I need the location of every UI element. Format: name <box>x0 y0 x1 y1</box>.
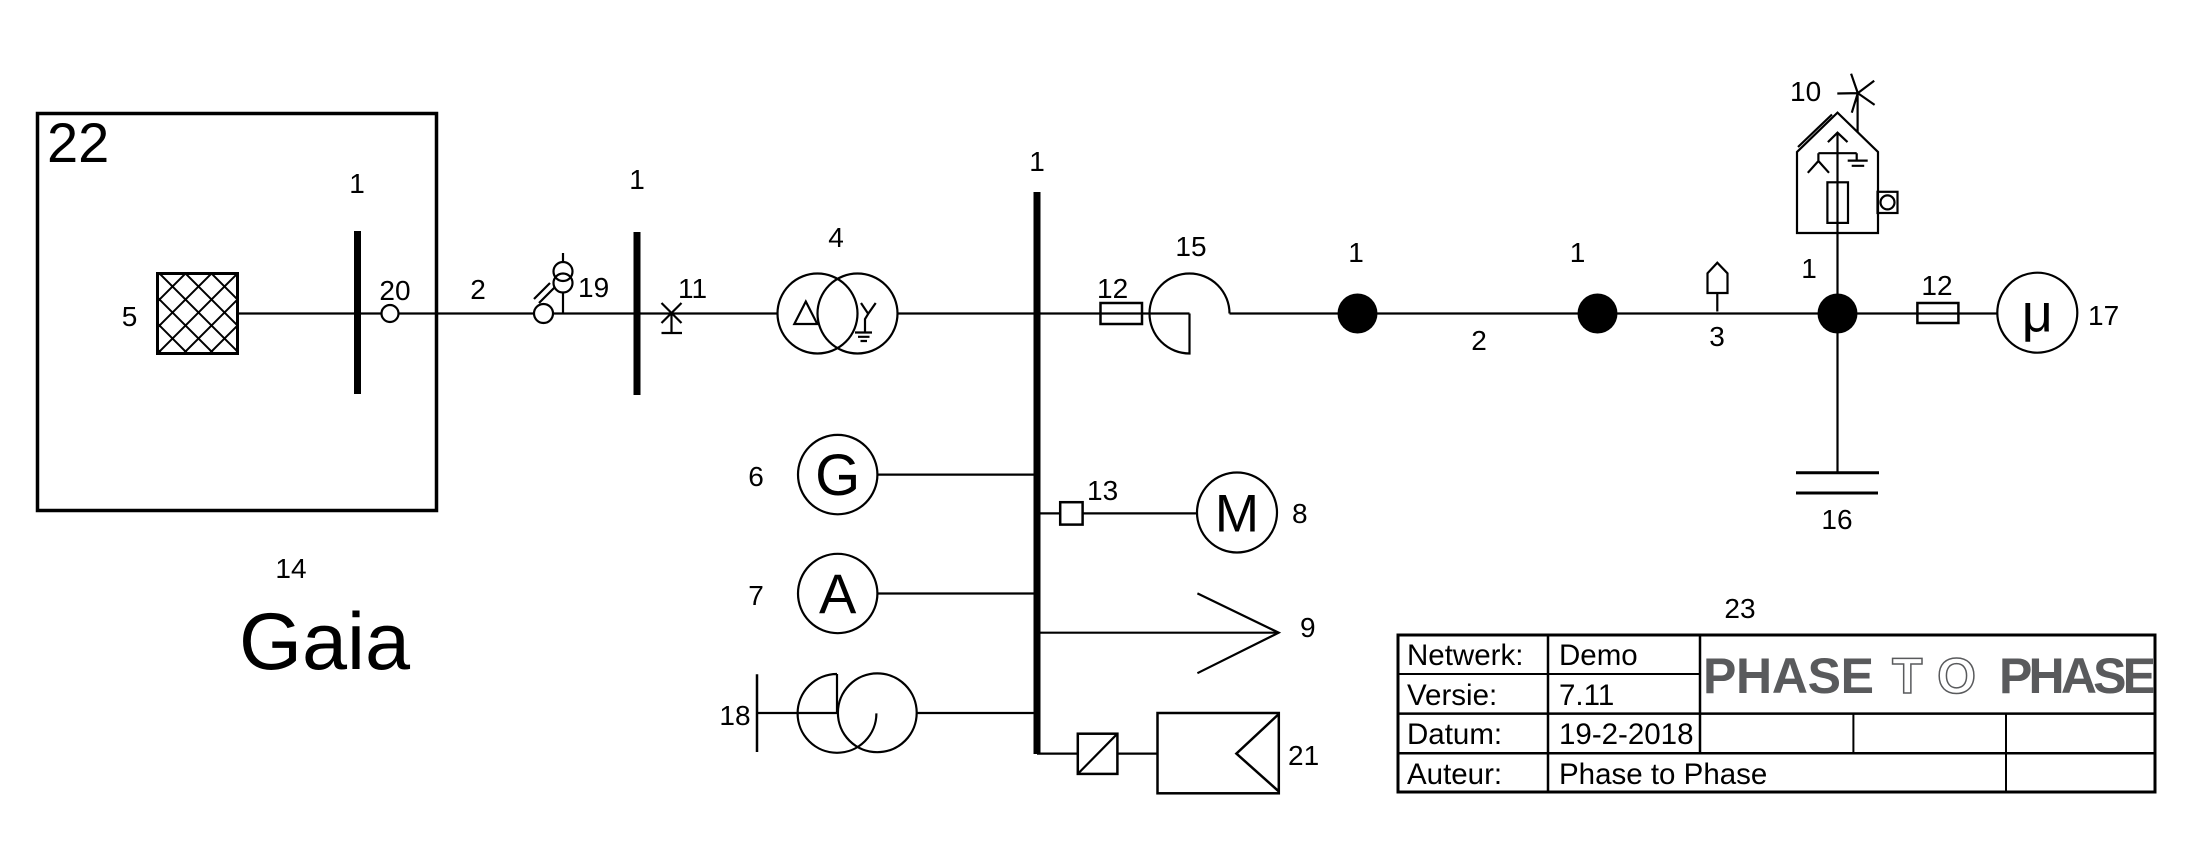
mast <box>1856 93 1858 132</box>
svg-text:1: 1 <box>1570 237 1586 268</box>
svg-text:7.11: 7.11 <box>1559 679 1614 712</box>
micro chp 17 (circle with mu) <box>1997 273 2077 353</box>
wire: machine 7 to busbar <box>877 592 1037 594</box>
internal earth <box>1848 153 1868 166</box>
svg-text:μ: μ <box>2022 284 2053 344</box>
svg-text:19-2-2018: 19-2-2018 <box>1559 718 1694 751</box>
earth 16 <box>1796 473 1879 493</box>
wire: generator 6 to busbar <box>877 474 1037 476</box>
svg-text:9: 9 <box>1300 612 1316 643</box>
fuse 12 (left) <box>1101 303 1143 324</box>
phase to phase logo <box>1703 648 2156 704</box>
svg-text:10: 10 <box>1790 76 1821 107</box>
internal horizontal link <box>1818 152 1856 154</box>
wire: busbar to box 21 (through converter square) <box>1037 752 1158 754</box>
svg-text:6: 6 <box>748 461 764 492</box>
main busbar 1 <box>1034 192 1041 754</box>
wire: transformer 4 right edge to main busbar <box>897 312 1038 314</box>
load arrow 9 <box>1197 593 1278 673</box>
svg-text:PHASE: PHASE <box>1999 648 2156 704</box>
svg-text:5: 5 <box>122 301 138 332</box>
measurement field 19: double slash <box>534 283 555 303</box>
wind turbine 10: house <box>1797 74 1898 233</box>
delta winding symbol <box>794 302 817 325</box>
wire: busbar to motor 8 (through switch 13) <box>1037 512 1197 514</box>
chicken foot (winding star point) <box>1808 153 1829 173</box>
measurement field 19: CT circle on wire <box>534 304 553 323</box>
fuse rectangle inside house <box>1827 182 1848 223</box>
busbar 1 (inside box) <box>354 231 361 394</box>
arrow head on shaft <box>1828 133 1848 142</box>
wire: terminal bar to transformer 18 center <box>757 712 837 714</box>
node 1 (second black node) <box>1578 294 1618 334</box>
switch 13 (square on wire) <box>1060 502 1082 524</box>
wye winding symbol with earth <box>861 303 876 333</box>
wire: main busbar to coil 15 center <box>1037 312 1190 314</box>
rotor blades (5-arm star) <box>1837 74 1874 113</box>
transformer 4 <box>778 274 898 354</box>
svg-text:1: 1 <box>1801 253 1817 284</box>
svg-text:23: 23 <box>1724 593 1755 624</box>
svg-text:Datum:: Datum: <box>1407 718 1502 751</box>
svg-text:G: G <box>815 443 860 508</box>
converter square with diagonal <box>1078 734 1118 774</box>
svg-text:2: 2 <box>470 274 486 305</box>
title block texts <box>1407 639 1767 791</box>
coil 15 (arc suppression coil) <box>1150 274 1230 354</box>
svg-text:3: 3 <box>1709 321 1725 352</box>
disconnector 20 (open circle on wire) <box>382 305 399 322</box>
measurement field 19: VT stacked circles with stubs <box>554 253 573 314</box>
wire: node to wind turbine 10 (vertical shaft) <box>1836 133 1838 314</box>
transformer 18: left coil <box>798 674 877 753</box>
box 21 (installation with chevron) <box>1158 713 1279 793</box>
svg-text:M: M <box>1215 485 1259 544</box>
svg-text:11: 11 <box>678 273 707 304</box>
svg-text:Netwerk:: Netwerk: <box>1407 639 1523 672</box>
svg-text:16: 16 <box>1821 504 1852 535</box>
svg-text:15: 15 <box>1175 231 1206 262</box>
svg-text:21: 21 <box>1288 740 1319 771</box>
wire: source 5 to transformer 4 left edge <box>238 312 778 314</box>
svg-text:Auteur:: Auteur: <box>1407 758 1502 791</box>
wire: node down to earth 16 <box>1836 314 1838 473</box>
svg-text:1: 1 <box>1348 237 1364 268</box>
transformer 18: terminal bar <box>756 674 759 752</box>
svg-text:12: 12 <box>1097 273 1128 304</box>
svg-text:14: 14 <box>275 553 306 584</box>
machine 7 <box>798 554 877 633</box>
svg-text:18: 18 <box>719 700 750 731</box>
wire: coil 15 exit to micro-chp 17 <box>1230 312 1998 314</box>
title block 23 <box>1398 635 2155 792</box>
node 1 (first black node) <box>1338 294 1378 334</box>
svg-text:7: 7 <box>748 580 764 611</box>
svg-text:4: 4 <box>828 222 844 253</box>
svg-text:2: 2 <box>1471 325 1487 356</box>
svg-text:13: 13 <box>1087 475 1118 506</box>
svg-text:Phase to Phase: Phase to Phase <box>1559 758 1767 791</box>
svg-text:Gaia: Gaia <box>239 597 411 687</box>
svg-text:20: 20 <box>379 275 410 306</box>
busbar 1 (second) <box>634 232 641 395</box>
load 3 (pentagon) <box>1708 263 1728 312</box>
source 5 (crosshatched square) <box>0 174 416 374</box>
wire: transformer 18 right edge to busbar <box>917 712 1038 714</box>
side attachment (meter) <box>1878 192 1898 213</box>
network box 22 <box>38 114 437 511</box>
node 1 (third black node) <box>1818 294 1858 334</box>
transformer 18: right circle <box>838 673 917 752</box>
double roof line <box>1798 115 1832 148</box>
svg-text:Versie:: Versie: <box>1407 679 1497 712</box>
svg-text:1: 1 <box>1029 146 1045 177</box>
svg-text:1: 1 <box>349 168 365 199</box>
svg-text:22: 22 <box>47 111 109 174</box>
svg-text:1: 1 <box>629 164 645 195</box>
fuse 12 (right) <box>1917 303 1958 323</box>
motor 8 <box>1197 473 1277 553</box>
switch 11 (X with tick) <box>662 303 683 333</box>
wire: busbar to load arrow 9 <box>1037 632 1279 634</box>
svg-text:19: 19 <box>578 272 609 303</box>
svg-text:A: A <box>819 562 857 625</box>
svg-text:17: 17 <box>2088 300 2119 331</box>
svg-text:12: 12 <box>1921 270 1952 301</box>
svg-text:Demo: Demo <box>1559 639 1638 672</box>
generator 6 <box>798 435 877 514</box>
svg-text:8: 8 <box>1292 498 1308 529</box>
svg-text:PHASE: PHASE <box>1703 648 1874 704</box>
